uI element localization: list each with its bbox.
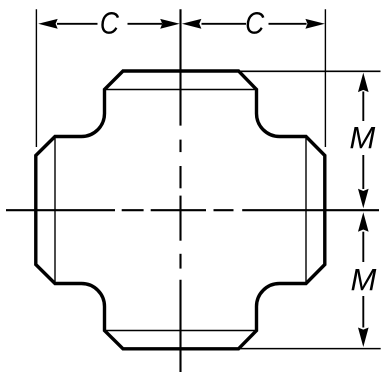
extension line top face (M): [240, 70, 381, 72]
arrowhead left of C1: [38, 19, 58, 29]
horizontal centerline: [6, 209, 379, 211]
dimension line C left: [57, 23, 162, 25]
label M1: [350, 127, 375, 148]
label C2: [247, 12, 265, 34]
bevel line top outlet: [105, 89, 257, 91]
bevel line right outlet: [305, 137, 307, 284]
dimension line C right: [202, 23, 307, 25]
arrowhead down (M top): [358, 189, 369, 209]
label M2: [352, 269, 377, 290]
bevel line left outlet: [54, 137, 56, 284]
extension line bottom face (M): [240, 348, 381, 350]
arrowhead up (M bottom): [358, 212, 369, 232]
bevel line bottom outlet: [105, 330, 257, 332]
vertical centerline: [179, 9, 181, 372]
extension line right (C): [324, 9, 326, 147]
dimension M bottom: [362, 232, 364, 328]
arrowhead down (M bottom): [358, 328, 369, 348]
arrowhead right of C2: [305, 19, 325, 29]
arrowhead right of C1: [160, 19, 180, 29]
cross fitting body outline: [36, 71, 325, 349]
dimension M top: [362, 92, 364, 190]
arrowhead up (M top): [358, 73, 369, 93]
extension line left (C): [35, 9, 37, 147]
arrowhead left of C2: [182, 19, 202, 29]
label C1: [101, 12, 119, 34]
